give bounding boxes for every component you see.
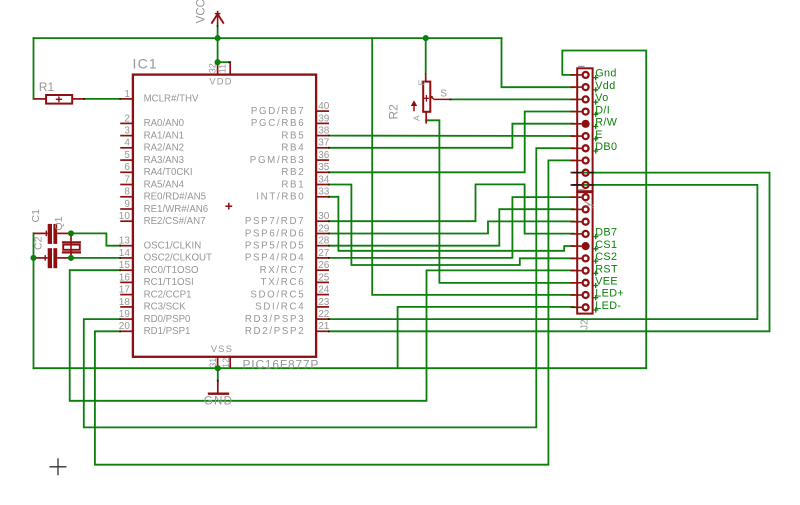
svg-text:6: 6: [124, 162, 130, 173]
svg-text:LED-: LED-: [595, 300, 621, 312]
junction VCC/VDD rail: [215, 35, 221, 41]
svg-text:LED+: LED+: [595, 288, 624, 300]
junction C2/GND riser: [30, 255, 36, 261]
connector pin 2 stub: [571, 86, 582, 88]
svg-text:RE2/CS#/AN7: RE2/CS#/AN7: [144, 216, 206, 227]
wire VDD pin11 jog: [218, 61, 231, 63]
IC1 pin 14 stub: [120, 257, 133, 259]
svg-text:VDD: VDD: [209, 76, 232, 86]
net label Vdd: [593, 87, 598, 92]
svg-text:VCC: VCC: [195, 0, 207, 23]
resistor R1: [34, 98, 47, 100]
svg-text:22: 22: [318, 309, 330, 320]
wire VCC symbol to VDD pins: [217, 26, 219, 62]
IC1 pin 29 stub: [316, 233, 329, 235]
svg-text:12: 12: [221, 358, 231, 368]
svg-text:1: 1: [124, 89, 130, 100]
connector pin 7 stub: [571, 147, 582, 149]
connector pin 14 circle: [583, 231, 589, 237]
connector pin 19 stub: [571, 294, 582, 296]
potentiometer R2: [425, 73, 427, 81]
svg-text:RE0/RD#/AN5: RE0/RD#/AN5: [144, 192, 206, 203]
connector pin 1 circle: [583, 72, 589, 78]
connector pin 12 stub: [571, 208, 582, 210]
IC1 pin 18 stub: [120, 306, 133, 308]
connector pin 16 circle: [583, 255, 589, 261]
connector J1 upper block outline: [577, 68, 592, 191]
net label R/W: [593, 124, 598, 129]
wire VCC to J2 LED+: [372, 38, 574, 295]
wire RB2 pin35 to J2 D/I: [329, 112, 574, 173]
svg-text:11: 11: [218, 64, 228, 73]
net label D/I: [593, 112, 598, 117]
svg-text:33: 33: [318, 187, 330, 198]
IC1 pin 15 stub: [120, 269, 133, 271]
connector pin 6 circle: [583, 133, 589, 139]
wire GND bottom rail: [34, 367, 647, 369]
svg-text:RX/RC7: RX/RC7: [260, 265, 306, 276]
svg-text:16: 16: [119, 272, 131, 283]
IC1 VDD pins 32 and 11 stubs: [217, 62, 219, 74]
junction VSS/GND rail: [215, 365, 221, 371]
IC1 pin 5 stub: [120, 159, 133, 161]
connector pin 13 stub: [571, 221, 582, 223]
connector pin 4 circle: [583, 109, 589, 115]
svg-text:34: 34: [318, 174, 330, 185]
svg-text:Vo: Vo: [595, 92, 608, 104]
connector pin 18 stub: [571, 282, 582, 284]
IC1 pin 8 stub: [120, 196, 133, 198]
IC1 pin 38 stub: [316, 135, 329, 137]
svg-text:A: A: [412, 115, 422, 121]
IC1 pin 22 stub: [316, 318, 329, 320]
wire DB3 pin stub left: [572, 184, 575, 186]
svg-text:RB4: RB4: [281, 143, 305, 154]
svg-text:RB5: RB5: [281, 130, 305, 141]
connector pin 3 circle: [583, 96, 589, 102]
wire VCC top rail: [34, 37, 502, 39]
net label RST: [593, 271, 598, 276]
wire DB3 crossing connector: [581, 184, 595, 186]
svg-text:R/W: R/W: [595, 117, 618, 129]
wire RB5 pin38 to J2 E: [329, 135, 574, 137]
wire R1 to MCLR pin1: [84, 98, 120, 100]
junction VCC/R2: [423, 35, 429, 41]
svg-text:25: 25: [318, 272, 330, 283]
connector pin 2 circle: [583, 84, 589, 90]
wire VCC rail down to R2 pin E: [425, 38, 427, 73]
svg-text:RD0/PSP0: RD0/PSP0: [144, 314, 191, 325]
svg-text:RC1/T1OSI: RC1/T1OSI: [144, 277, 194, 288]
wire R2 pin A to J2 VEE: [426, 120, 574, 283]
connector pin 17 stub: [571, 270, 582, 272]
svg-text:E: E: [595, 129, 603, 141]
R2 wiper S lead: [434, 98, 451, 100]
IC1 pin 13 stub: [120, 245, 133, 247]
svg-text:SDI/RC4: SDI/RC4: [255, 302, 305, 313]
svg-text:30: 30: [318, 211, 330, 222]
connector pin 8 stub: [571, 160, 582, 162]
svg-text:RC3/SCK: RC3/SCK: [144, 302, 187, 313]
svg-text:R2: R2: [387, 104, 401, 120]
wire RD5 pin28 to J2 DB5: [329, 209, 574, 246]
wire RD0 pin19 to J2 DB0: [84, 148, 575, 427]
svg-text:VSS: VSS: [211, 344, 233, 354]
svg-text:E: E: [417, 80, 427, 86]
svg-text:17: 17: [119, 285, 131, 296]
wire GND rail to J2 LED-: [398, 307, 575, 368]
connector top tick: [578, 65, 585, 67]
svg-text:26: 26: [318, 260, 330, 271]
wire DB2 crossing connector: [581, 172, 595, 174]
IC1 pin 6 stub: [120, 171, 133, 173]
svg-text:OSC2/CLKOUT: OSC2/CLKOUT: [144, 253, 212, 264]
IC1 pin 30 stub: [316, 220, 329, 222]
svg-text:Gnd: Gnd: [595, 68, 617, 80]
connector pin 15 stub: [571, 245, 582, 247]
junction C2/Q1/OSC2: [68, 255, 74, 261]
svg-text:VEE: VEE: [595, 276, 618, 288]
net label CS1: [593, 246, 598, 251]
svg-text:MCLR#/THV: MCLR#/THV: [144, 94, 199, 105]
net label DB0: [593, 148, 598, 153]
connector pin 9 stub: [571, 172, 582, 174]
svg-text:8: 8: [124, 187, 130, 198]
wire end cap: [217, 380, 219, 382]
connector pin 15 circle: [582, 242, 590, 250]
svg-text:INT/RB0: INT/RB0: [256, 192, 305, 203]
svg-text:Vdd: Vdd: [595, 80, 615, 92]
IC1 pin 9 stub: [120, 208, 133, 210]
IC1 pin 16 stub: [120, 281, 133, 283]
svg-text:37: 37: [318, 138, 330, 149]
svg-text:18: 18: [119, 297, 131, 308]
svg-text:IC1: IC1: [133, 55, 158, 71]
svg-text:PGC/RB6: PGC/RB6: [251, 118, 305, 129]
svg-text:RE1/WR#/AN6: RE1/WR#/AN6: [144, 204, 209, 215]
R2 adjust arrow: [413, 103, 415, 112]
wire end caps at pin attachments: [119, 98, 121, 100]
svg-text:RC0/T1OSO: RC0/T1OSO: [144, 265, 199, 276]
svg-text:29: 29: [318, 223, 330, 234]
wire RB0 pin33 to J2 CS1: [329, 197, 574, 251]
IC1 pin 10 stub: [120, 220, 133, 222]
IC IC1 PIC16F877P microcontroller body: [133, 75, 316, 357]
net label LED-: [593, 307, 598, 312]
IC1 pin 17 stub: [120, 294, 133, 296]
connector pin 16 stub: [571, 257, 582, 259]
svg-text:RA0/AN0: RA0/AN0: [144, 118, 185, 129]
connector pin 18 circle: [583, 280, 589, 286]
svg-text:7: 7: [124, 174, 130, 185]
connector pin 1 stub: [571, 74, 582, 76]
svg-text:3: 3: [124, 126, 130, 137]
svg-text:RA2/AN2: RA2/AN2: [144, 143, 184, 154]
svg-text:DB0: DB0: [595, 141, 617, 153]
connector pin 19 circle: [583, 292, 589, 298]
power symbol VCC: [217, 11, 219, 26]
connector J1 name label: [578, 189, 585, 191]
IC1 pin 36 stub: [316, 159, 329, 161]
connector pin 12 circle: [583, 206, 589, 212]
IC1 pin 25 stub: [316, 281, 329, 283]
wire GND rail to J2 Gnd: [562, 51, 646, 369]
svg-text:DB7: DB7: [595, 227, 617, 239]
svg-text:RC2/CCP1: RC2/CCP1: [144, 289, 192, 300]
IC1 pin 34 stub: [316, 184, 329, 186]
svg-text:38: 38: [318, 126, 330, 137]
IC1 VSS pins 31 and 12 stubs: [217, 357, 219, 368]
wire RD6 pin29 to J2 DB6: [329, 221, 574, 233]
IC1 pin 28 stub: [316, 245, 329, 247]
IC1 pin 40 stub: [316, 110, 329, 112]
connector pin 3 stub: [571, 98, 582, 100]
net label LED+: [593, 295, 598, 300]
wire VSS junction to GND symbol: [217, 368, 219, 381]
wire RD2 pin21 to J2 DB2 right loop: [329, 173, 770, 332]
svg-text:C2: C2: [33, 236, 45, 250]
net label E: [593, 136, 598, 141]
svg-text:PSP4/RD4: PSP4/RD4: [245, 253, 305, 264]
wire RB4 pin37 to J2 R/W: [329, 124, 574, 148]
net label CS2: [593, 259, 598, 264]
capacitor C1: [34, 232, 48, 234]
svg-text:PGM/RB3: PGM/RB3: [250, 155, 306, 166]
svg-text:OSC1/CLKIN: OSC1/CLKIN: [144, 241, 202, 252]
wire RD7 pin30 to J2 DB7: [329, 184, 574, 233]
svg-text:RD3/PSP3: RD3/PSP3: [245, 314, 305, 325]
ground symbol GND: [217, 381, 219, 393]
svg-text:PSP7/RD7: PSP7/RD7: [245, 216, 305, 227]
svg-text:RA5/AN4: RA5/AN4: [144, 179, 185, 190]
svg-text:Q1: Q1: [53, 216, 65, 230]
sheet origin crosshair: [50, 466, 67, 468]
net label VEE: [593, 283, 598, 288]
svg-text:39: 39: [318, 113, 330, 124]
IC1 pin 3 stub: [120, 135, 133, 137]
svg-text:PIC16F877P: PIC16F877P: [243, 358, 320, 372]
wire R2 wiper S to J2 Vo: [451, 98, 575, 100]
connector pin 5 circle: [582, 120, 590, 128]
wire XTAL2/C2 to OSC2 pin14: [71, 257, 120, 259]
connector pin 8 circle: [583, 158, 589, 164]
net label DB7: [593, 234, 598, 239]
connector pin 7 circle: [583, 145, 589, 151]
wire end cap S: [450, 98, 452, 100]
IC1 pin 35 stub: [316, 171, 329, 173]
svg-text:2: 2: [124, 113, 130, 124]
svg-text:RD2/PSP2: RD2/PSP2: [245, 326, 305, 337]
IC1 origin cross: [225, 205, 232, 207]
connector pin 6 stub: [571, 135, 582, 137]
IC1 pin 39 stub: [316, 122, 329, 124]
IC1 pin 7 stub: [120, 184, 133, 186]
wire DB2 pin stub left: [572, 172, 575, 174]
connector pin 4 stub: [571, 111, 582, 113]
svg-text:RST: RST: [595, 263, 618, 275]
IC1 pin 27 stub: [316, 257, 329, 259]
IC1 pin 4 stub: [120, 147, 133, 149]
svg-text:J: J: [586, 204, 597, 209]
connector pin 20 circle: [583, 304, 589, 310]
wire VCC rail down to R1: [33, 38, 35, 99]
wire C1/C2 left to GND rail: [33, 233, 35, 368]
wire RD4 pin27 to J2 DB4: [329, 197, 574, 258]
connector pin 9 circle: [583, 170, 589, 176]
IC1 pin 19 stub: [120, 318, 133, 320]
svg-text:24: 24: [318, 285, 330, 296]
net label Vo: [593, 100, 598, 105]
svg-text:S: S: [440, 89, 447, 100]
wire RD1 pin20 to J2 DB1: [95, 160, 574, 464]
crystal Q1: [70, 233, 72, 241]
wire XTAL1/C1 to OSC1 pin13: [71, 233, 120, 245]
net label Gnd: [593, 75, 598, 80]
svg-text:TX/RC6: TX/RC6: [261, 277, 306, 288]
svg-text:RB2: RB2: [281, 167, 305, 178]
svg-text:SDO/RC5: SDO/RC5: [250, 289, 305, 300]
svg-text:RD1/PSP1: RD1/PSP1: [144, 326, 191, 337]
IC1 pin 21 stub: [316, 330, 329, 332]
connector pin 11 stub: [571, 196, 582, 198]
svg-text:J2: J2: [580, 319, 591, 330]
svg-text:4: 4: [124, 138, 130, 149]
svg-text:36: 36: [318, 150, 330, 161]
capacitor C2: [35, 257, 48, 259]
svg-text:RA4/T0CKI: RA4/T0CKI: [144, 167, 193, 178]
wire end cap: [217, 25, 219, 26]
IC1 pin 37 stub: [316, 147, 329, 149]
svg-text:RA3/AN3: RA3/AN3: [144, 155, 184, 166]
svg-text:27: 27: [318, 248, 330, 259]
svg-text:28: 28: [318, 236, 330, 247]
wire RC0 pin15 to J2 RST: [70, 270, 575, 401]
svg-text:23: 23: [318, 297, 330, 308]
wire RD3 pin22 to J2 DB3 right loop: [329, 185, 757, 319]
wire RB1 pin34 to J2 CS2: [329, 185, 574, 266]
IC1 pin 24 stub: [316, 294, 329, 296]
svg-text:40: 40: [318, 101, 330, 112]
svg-text:10: 10: [119, 211, 131, 222]
svg-text:CS2: CS2: [595, 251, 617, 263]
IC1 pin 33 stub: [316, 196, 329, 198]
svg-text:21: 21: [318, 321, 330, 332]
svg-text:9: 9: [124, 199, 130, 210]
svg-text:PSP5/RD5: PSP5/RD5: [245, 241, 305, 252]
connector pin 10 stub: [571, 184, 582, 186]
svg-text:R1: R1: [39, 80, 55, 94]
IC1 pin 23 stub: [316, 306, 329, 308]
svg-text:35: 35: [318, 162, 330, 173]
svg-text:5: 5: [124, 150, 130, 161]
svg-text:PSP6/RD6: PSP6/RD6: [245, 228, 305, 239]
IC1 pin 20 stub: [120, 330, 133, 332]
IC1 pin 2 stub: [120, 122, 133, 124]
svg-text:CS1: CS1: [595, 239, 617, 251]
connector pin 11 circle: [583, 194, 589, 200]
svg-text:D/I: D/I: [595, 104, 610, 116]
connector pin 10 circle: [583, 182, 589, 188]
svg-text:GND: GND: [204, 396, 233, 408]
connector J2 lower block outline: [577, 192, 592, 313]
connector pin 5 stub: [571, 123, 582, 125]
svg-text:RA1/AN1: RA1/AN1: [144, 130, 184, 141]
connector pin 13 circle: [583, 219, 589, 225]
svg-text:PGD/RB7: PGD/RB7: [251, 106, 305, 117]
connector pin 20 stub: [571, 306, 582, 308]
svg-text:C1: C1: [30, 209, 42, 223]
svg-text:RB1: RB1: [281, 179, 305, 190]
junction VDD pins: [215, 59, 221, 65]
IC1 pin 1 stub: [120, 98, 133, 100]
connector pin 14 stub: [571, 233, 582, 235]
wire VCC to J2 Vdd: [502, 38, 575, 87]
junction C1/Q1/OSC1: [68, 230, 74, 236]
connector pin 17 circle: [583, 268, 589, 274]
IC1 pin 26 stub: [316, 269, 329, 271]
